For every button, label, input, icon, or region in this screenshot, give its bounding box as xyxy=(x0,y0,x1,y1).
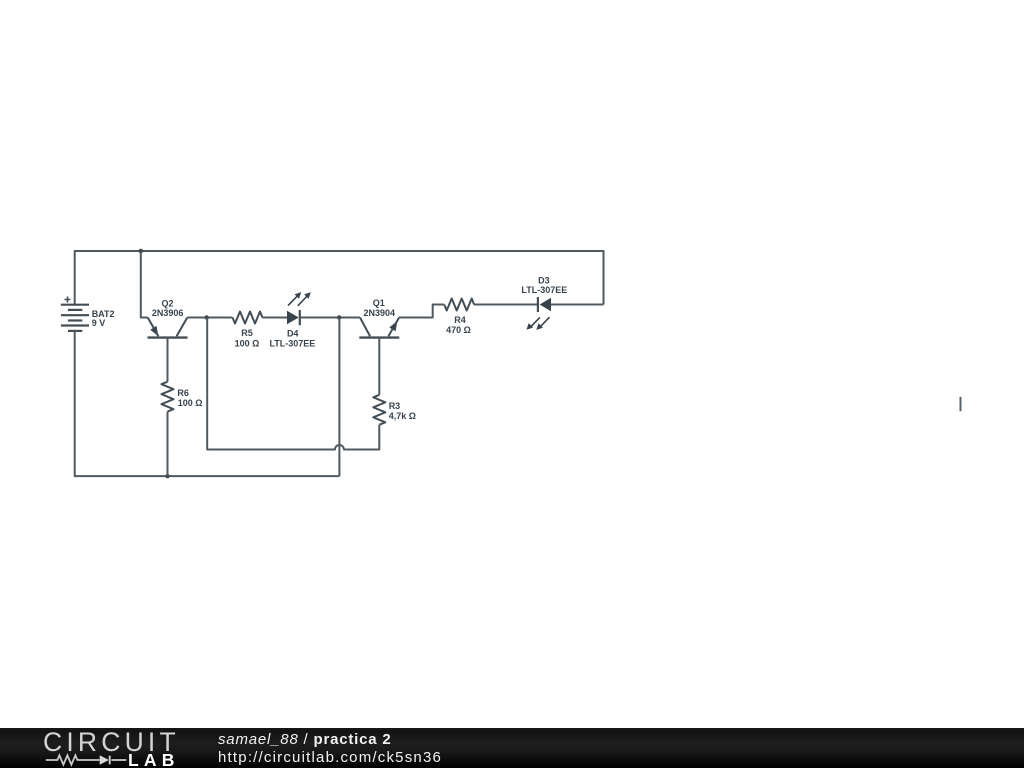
wire Q1 emitter to R4 step xyxy=(399,305,444,318)
svg-text:470 Ω: 470 Ω xyxy=(446,325,471,335)
svg-text:9 V: 9 V xyxy=(92,318,106,328)
svg-text:D3: D3 xyxy=(538,275,550,285)
svg-text:100 Ω: 100 Ω xyxy=(178,398,203,408)
resistor R4 xyxy=(444,299,474,311)
node junction D4-Q1 xyxy=(337,315,341,319)
svg-text:2N3904: 2N3904 xyxy=(364,308,396,318)
svg-text:LTL-307EE: LTL-307EE xyxy=(521,285,567,295)
svg-text:R6: R6 xyxy=(177,388,189,398)
LED D4 xyxy=(287,292,311,325)
resistor R3 xyxy=(373,338,385,425)
wire Q2 collector drop xyxy=(141,251,148,318)
wire stray stub right side xyxy=(960,397,962,411)
wire R4 to D3 xyxy=(474,304,538,306)
transistor Q1 xyxy=(359,318,399,338)
resistor R6 xyxy=(162,338,174,477)
node junction on top rail xyxy=(139,249,144,254)
svg-text:LTL-307EE: LTL-307EE xyxy=(269,339,315,349)
svg-text:2N3906: 2N3906 xyxy=(152,308,184,318)
svg-text:D4: D4 xyxy=(287,328,299,338)
wire R3 to cross wire with hop over vertical xyxy=(207,318,379,450)
battery BAT2 xyxy=(61,297,89,331)
wire Q2 right stub to node xyxy=(187,317,232,319)
svg-text:100 Ω: 100 Ω xyxy=(235,339,260,349)
node junction bottom rail xyxy=(165,474,169,478)
svg-text:R4: R4 xyxy=(454,315,466,325)
wire top rail with left and right drops xyxy=(75,251,604,305)
wire R5 to D4 xyxy=(262,317,287,319)
wire D3 to right rail xyxy=(551,304,604,306)
footer url line xyxy=(218,750,442,765)
svg-text:R3: R3 xyxy=(389,401,401,411)
svg-text:R5: R5 xyxy=(241,328,253,338)
LED D3 xyxy=(527,297,552,330)
transistor Q2 xyxy=(148,318,188,338)
svg-text:Q2: Q2 xyxy=(161,298,173,308)
wire cross-coupling drop to bottom rail xyxy=(338,318,340,477)
CircuitLab logo schematic row xyxy=(43,752,133,768)
wire D4 to Q1 xyxy=(300,317,360,319)
footer title line xyxy=(218,732,392,747)
CircuitLab logo wordmark xyxy=(43,729,180,755)
svg-text:4,7k Ω: 4,7k Ω xyxy=(389,411,416,421)
wire battery negative to bottom rail xyxy=(75,331,340,476)
CircuitLab logo LAB text xyxy=(128,752,180,768)
resistor R5 xyxy=(233,312,263,324)
svg-text:Q1: Q1 xyxy=(373,298,385,308)
node junction Q2-R5 xyxy=(205,315,209,319)
